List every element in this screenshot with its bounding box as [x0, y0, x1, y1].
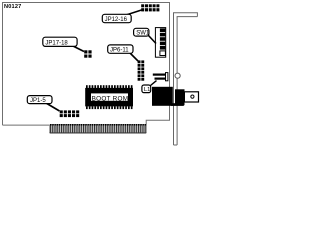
card outline — [3, 3, 170, 134]
transformer — [152, 87, 173, 106]
jumper block JP17-18 — [84, 50, 91, 57]
jumper block JP12-16 — [141, 4, 159, 11]
svg-text:JP12-16: JP12-16 — [105, 17, 128, 23]
bracket hole — [175, 73, 180, 78]
BNC pin — [191, 95, 194, 98]
inductor L1 — [153, 73, 168, 81]
svg-text:L1: L1 — [144, 87, 150, 93]
label JP17-18 — [43, 37, 84, 51]
svg-text:JP6-11: JP6-11 — [110, 48, 129, 54]
bracket — [174, 13, 198, 145]
boot rom chip — [85, 85, 133, 109]
label SW1 — [134, 28, 156, 43]
label JP12-16 — [102, 10, 141, 23]
svg-text:BOOT ROM: BOOT ROM — [92, 95, 129, 102]
label JP1-5 — [27, 96, 59, 111]
BNC connector barrel — [184, 92, 198, 102]
edge connector — [50, 124, 147, 133]
BNC mounting lug — [171, 103, 184, 106]
jumper block JP1-5 — [60, 110, 79, 117]
label JP6-11 — [108, 45, 138, 61]
svg-text:SW1: SW1 — [136, 31, 150, 37]
svg-text:JP17-18: JP17-18 — [45, 40, 68, 46]
svg-text:JP1-5: JP1-5 — [30, 98, 46, 104]
BNC connector base — [175, 89, 185, 105]
DIP switch SW1 — [155, 28, 165, 58]
svg-text:N0127: N0127 — [4, 4, 21, 10]
label L1 — [142, 81, 157, 94]
jumper block JP6-11 — [138, 60, 145, 80]
